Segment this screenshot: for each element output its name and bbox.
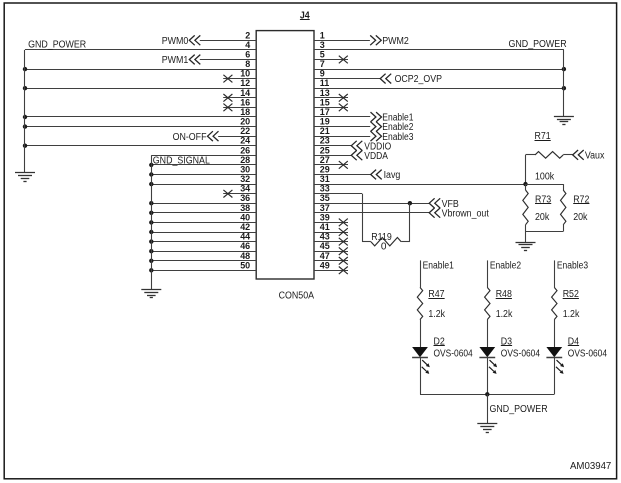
- svg-text:1.2k: 1.2k: [496, 309, 514, 320]
- svg-text:47: 47: [320, 251, 330, 261]
- svg-text:GND_POWER: GND_POWER: [490, 404, 548, 415]
- svg-text:22: 22: [240, 126, 250, 136]
- svg-text:39: 39: [320, 212, 330, 222]
- svg-text:Vaux: Vaux: [585, 151, 605, 162]
- svg-text:49: 49: [320, 260, 330, 270]
- svg-text:26: 26: [240, 145, 250, 155]
- svg-text:28: 28: [240, 155, 250, 165]
- svg-text:43: 43: [320, 232, 330, 242]
- svg-text:100k: 100k: [535, 171, 555, 182]
- svg-text:6: 6: [245, 50, 250, 60]
- svg-text:VDDA: VDDA: [364, 151, 388, 162]
- svg-text:42: 42: [240, 222, 250, 232]
- svg-text:46: 46: [240, 241, 250, 251]
- svg-text:GND_POWER: GND_POWER: [28, 39, 86, 50]
- svg-text:3: 3: [320, 40, 325, 50]
- svg-text:PWM2: PWM2: [382, 36, 409, 47]
- svg-text:35: 35: [320, 193, 330, 203]
- svg-text:10: 10: [240, 69, 250, 79]
- svg-text:41: 41: [320, 222, 330, 232]
- svg-text:23: 23: [320, 136, 330, 146]
- svg-text:20k: 20k: [573, 212, 588, 223]
- svg-text:13: 13: [320, 88, 330, 98]
- svg-text:24: 24: [240, 136, 250, 146]
- svg-text:11: 11: [320, 78, 330, 88]
- svg-text:1: 1: [320, 30, 325, 40]
- svg-text:19: 19: [320, 117, 330, 127]
- svg-text:12: 12: [240, 78, 250, 88]
- svg-text:37: 37: [320, 203, 330, 213]
- svg-text:36: 36: [240, 193, 250, 203]
- svg-text:Enable2: Enable2: [490, 260, 522, 271]
- svg-text:OVS-0604: OVS-0604: [434, 348, 474, 359]
- svg-text:4: 4: [245, 40, 250, 50]
- svg-text:OCP2_OVP: OCP2_OVP: [395, 74, 443, 85]
- svg-text:2: 2: [245, 30, 250, 40]
- svg-text:Enable1: Enable1: [423, 260, 455, 271]
- svg-text:31: 31: [320, 174, 330, 184]
- svg-text:30: 30: [240, 165, 250, 175]
- svg-text:18: 18: [240, 107, 250, 117]
- svg-text:33: 33: [320, 184, 330, 194]
- svg-text:7: 7: [320, 59, 325, 69]
- svg-text:PWM0: PWM0: [162, 36, 189, 47]
- svg-text:9: 9: [320, 69, 325, 79]
- svg-text:34: 34: [240, 184, 250, 194]
- svg-text:20k: 20k: [535, 212, 550, 223]
- svg-text:Vbrown_out: Vbrown_out: [442, 208, 489, 219]
- svg-text:PWM1: PWM1: [162, 55, 189, 66]
- svg-text:29: 29: [320, 165, 330, 175]
- svg-text:27: 27: [320, 155, 330, 165]
- svg-text:0: 0: [381, 242, 387, 253]
- svg-text:OVS-0604: OVS-0604: [568, 348, 608, 359]
- svg-text:14: 14: [240, 88, 250, 98]
- svg-text:40: 40: [240, 212, 250, 222]
- svg-text:45: 45: [320, 241, 330, 251]
- svg-text:20: 20: [240, 117, 250, 127]
- svg-text:5: 5: [320, 50, 325, 60]
- svg-text:OVS-0604: OVS-0604: [501, 348, 541, 359]
- svg-text:21: 21: [320, 126, 330, 136]
- svg-text:16: 16: [240, 97, 250, 107]
- svg-text:17: 17: [320, 107, 330, 117]
- svg-text:AM03947: AM03947: [570, 461, 612, 472]
- svg-text:1.2k: 1.2k: [428, 309, 446, 320]
- svg-text:Iavg: Iavg: [384, 170, 401, 181]
- svg-text:Enable3: Enable3: [557, 260, 589, 271]
- svg-text:8: 8: [245, 59, 250, 69]
- svg-text:32: 32: [240, 174, 250, 184]
- svg-text:44: 44: [240, 232, 250, 242]
- svg-text:GND_POWER: GND_POWER: [509, 39, 567, 50]
- svg-text:50: 50: [240, 260, 250, 270]
- svg-text:25: 25: [320, 145, 330, 155]
- svg-text:48: 48: [240, 251, 250, 261]
- svg-text:1.2k: 1.2k: [563, 309, 581, 320]
- svg-text:38: 38: [240, 203, 250, 213]
- svg-text:ON-OFF: ON-OFF: [173, 132, 207, 143]
- svg-text:15: 15: [320, 97, 330, 107]
- svg-text:CON50A: CON50A: [279, 290, 315, 302]
